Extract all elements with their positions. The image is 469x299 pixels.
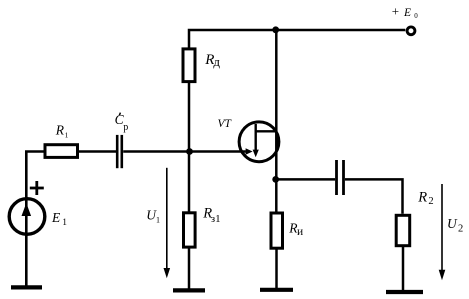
resistor R2 box xyxy=(396,215,410,245)
svg-text:д: д xyxy=(213,54,220,69)
terminal +E0 xyxy=(407,27,415,35)
label Rd xyxy=(204,52,220,69)
wire E1 vertical with source arrow shaft xyxy=(25,152,28,286)
resistor Rz1 box (lower divider resistor) xyxy=(184,213,196,247)
transistor VT channel bar with down arrow xyxy=(253,124,259,157)
label + E0 xyxy=(392,4,418,21)
capacitor Cp plates xyxy=(117,135,122,168)
node junction dot on rail at drain branch xyxy=(272,26,279,33)
node gate junction dot xyxy=(186,148,193,155)
label Rz1 xyxy=(202,206,220,226)
ground under Rz1 xyxy=(173,288,205,292)
ground under R2 xyxy=(386,290,423,294)
svg-text:R: R xyxy=(417,189,427,205)
wire E1 top to R1 xyxy=(25,150,44,153)
gate arrowhead of VT xyxy=(246,148,253,155)
svg-text:VT: VT xyxy=(218,118,233,130)
wire Rz1 bottom to ground xyxy=(188,247,191,290)
svg-text:р: р xyxy=(123,122,128,133)
svg-text:+: + xyxy=(392,4,399,19)
resistor R1 box xyxy=(45,145,78,158)
transistor VT inner drain bar xyxy=(256,130,277,132)
wire Ri to ground xyxy=(275,248,278,288)
label U1 xyxy=(146,208,160,225)
node source junction dot xyxy=(272,176,279,183)
wire capacitor to gate of VT xyxy=(123,150,246,153)
plus sign of E1 xyxy=(30,181,44,195)
wire drain-source vertical through VT xyxy=(275,30,278,179)
svg-text:1: 1 xyxy=(156,215,160,224)
label Ri xyxy=(288,221,303,238)
ground under E1 xyxy=(11,285,42,289)
resistor Ri box xyxy=(271,213,283,248)
transistor VT body circle xyxy=(239,122,279,162)
wire R1 to capacitor Cp xyxy=(79,150,116,153)
svg-text:и: и xyxy=(297,226,303,238)
svg-text:E: E xyxy=(403,7,411,19)
label R1 xyxy=(55,122,69,139)
ground under Ri xyxy=(260,288,293,292)
wire R2 to ground xyxy=(402,246,405,290)
svg-text:1: 1 xyxy=(62,218,67,228)
source E1 circle xyxy=(9,199,45,235)
svg-text:R: R xyxy=(55,122,65,137)
svg-text:0: 0 xyxy=(414,12,418,20)
wire divider column from Rd bottom through gate node to Rz1 top xyxy=(188,82,191,213)
label U2 xyxy=(447,216,463,234)
svg-text:2: 2 xyxy=(458,223,463,234)
wire capacitor to R2 xyxy=(345,179,403,213)
label Cp xyxy=(115,112,129,133)
wire top rail from divider corner to +E0 terminal xyxy=(189,30,405,48)
svg-text:2: 2 xyxy=(428,196,433,207)
resistor Rd box (upper divider resistor) xyxy=(183,49,195,82)
svg-text:U: U xyxy=(447,216,458,231)
voltage arrow U2 xyxy=(439,184,446,280)
voltage arrow U1 xyxy=(164,168,171,278)
svg-text:1: 1 xyxy=(65,131,69,140)
label R2 xyxy=(417,189,433,207)
svg-text:E: E xyxy=(51,210,61,225)
svg-text:з1: з1 xyxy=(211,213,221,225)
arrow inside source E1 xyxy=(22,203,32,216)
label E1 xyxy=(51,210,67,228)
wire source node to Ri xyxy=(275,179,278,213)
wire source node to output capacitor xyxy=(276,178,335,181)
capacitor output plates xyxy=(337,160,344,195)
